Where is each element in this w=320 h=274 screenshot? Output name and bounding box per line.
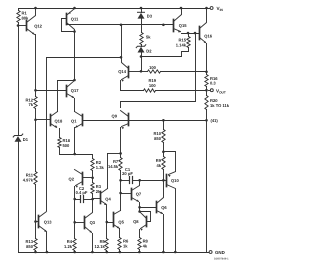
junction Q2 emitter / C2 left <box>73 198 76 201</box>
svg-text:4k: 4k <box>156 163 161 168</box>
junction node B (D2 anode / R15 return) <box>140 55 143 58</box>
junction divider node (4) <box>205 119 208 122</box>
transistor Q13 <box>36 212 53 253</box>
svg-text:5k: 5k <box>146 35 151 40</box>
transistor Q17 <box>36 81 80 112</box>
capacitor C1 20pF <box>121 167 140 184</box>
junction C1 / Q7 collector <box>138 179 141 182</box>
svg-text:Q17: Q17 <box>71 88 79 93</box>
junction Q15 collector / top rail <box>180 7 183 10</box>
resistor R15 <box>187 37 190 48</box>
wire Q18 collector riser <box>58 80 75 82</box>
transistor Q4 <box>93 189 112 239</box>
diode D1 <box>13 134 29 142</box>
wire Q3 base node down to R4 <box>74 223 76 239</box>
svg-text:Q18: Q18 <box>55 118 63 123</box>
junction Q7 emitter / Q6 base <box>138 206 141 209</box>
svg-text:Q14: Q14 <box>118 69 126 74</box>
junction R15 top <box>187 32 190 35</box>
resistor R7 <box>119 158 122 171</box>
svg-text:20 pF: 20 pF <box>122 171 133 176</box>
transistor Q18 <box>36 112 63 138</box>
junction Q11 emitter / top rail <box>73 7 76 10</box>
wire 5k to D2 <box>141 45 143 47</box>
junction tail node <box>73 153 76 156</box>
wire Q16 base to Q9 collector <box>121 34 196 108</box>
wire left rail upper segment <box>18 9 20 11</box>
svg-text:1k TO 11k: 1k TO 11k <box>210 103 230 108</box>
transistor Q16 <box>200 9 213 72</box>
junction Q3 emitter / rail <box>91 251 94 254</box>
junction Q16 collector / top rail <box>205 7 208 10</box>
svg-text:0.4 pF: 0.4 pF <box>76 190 88 195</box>
wire R15 top <box>188 34 190 37</box>
wire feedback line Q1 base to divider node <box>84 120 207 122</box>
wire R5 bottom <box>106 251 108 253</box>
svg-text:DS007846-1: DS007846-1 <box>214 258 229 261</box>
junction Q2 base / R2 / R3 <box>91 177 94 180</box>
wire R20 top stub <box>206 91 208 96</box>
junction Q3 base <box>73 221 76 224</box>
wire R9 bottom to Q10 base node <box>163 170 165 181</box>
junction Q13 base <box>34 220 37 223</box>
junction R1 bottom / Q12 base <box>17 24 20 27</box>
resistor R14 100 <box>148 70 161 73</box>
wire R7 bottom <box>120 171 122 181</box>
capacitor C2 0.4pF <box>75 186 93 203</box>
resistor R19 <box>144 89 156 92</box>
svg-text:D2: D2 <box>146 49 152 54</box>
junction Q17 base / Q12 emitter / R12 <box>34 89 37 92</box>
wire tail node to R2 <box>75 155 93 159</box>
resistor R4 <box>73 239 76 251</box>
wire R12 bottom <box>35 109 37 120</box>
wire R7 top <box>120 154 122 158</box>
wire node C to 100 ohm <box>142 71 148 73</box>
junction R16 top / Q16 emitter <box>205 71 208 74</box>
svg-text:Q2: Q2 <box>69 176 75 181</box>
transistor Q3 <box>75 200 96 253</box>
wire R9 top <box>163 152 165 157</box>
svg-text:Q10: Q10 <box>171 178 179 183</box>
wire Q2 emitter node down <box>74 200 76 223</box>
junction R7 / C1 / Q5 collector line <box>119 179 122 182</box>
transistor Q10 (PNP) <box>164 152 180 253</box>
wire PNP base rail to Q15 base <box>67 24 174 26</box>
wire R18 bottom to tail node <box>60 148 75 155</box>
svg-text:Q12: Q12 <box>34 24 42 29</box>
wire Q18 base node down <box>35 120 37 172</box>
resistor R1 <box>17 11 20 23</box>
wire R10 bottom to junction <box>163 143 165 152</box>
svg-text:1.14k: 1.14k <box>176 42 187 47</box>
svg-text:1.2k: 1.2k <box>64 244 73 249</box>
junction Q17 collector / Q11 <box>73 79 76 82</box>
wire drop from base rail to node A <box>121 25 123 58</box>
svg-text:2k: 2k <box>96 189 101 194</box>
resistor R18 <box>58 138 61 148</box>
junction Q9 emitter / Q4 collector <box>119 152 122 155</box>
junction base rail / reference string drop <box>162 24 165 27</box>
resistor R16 <box>205 75 208 87</box>
resistor R20 <box>205 96 208 110</box>
svg-text:7k: 7k <box>28 102 33 107</box>
transistor Q5 <box>107 211 125 238</box>
wire top V+ rail <box>19 8 210 10</box>
svg-text:Q7: Q7 <box>136 191 142 196</box>
svg-text:Q6: Q6 <box>161 205 167 210</box>
wire bottom ground rail <box>19 252 209 254</box>
svg-text:Q11: Q11 <box>71 16 79 21</box>
svg-text:500: 500 <box>63 143 71 148</box>
junction R10/R9/Q10 emitter <box>162 151 165 154</box>
wire R16 bottom stub <box>206 87 208 91</box>
svg-text:Q8: Q8 <box>133 219 139 224</box>
wire D3 to 5k <box>141 19 143 33</box>
svg-text:4k: 4k <box>143 243 148 248</box>
junction top rail / D3 <box>140 7 143 10</box>
wire R4 bottom <box>74 251 76 253</box>
junction Q7 base tap <box>119 192 122 195</box>
wire R10 top <box>163 121 165 130</box>
svg-text:100: 100 <box>149 65 157 70</box>
resistor R5 <box>105 239 108 251</box>
svg-text:100: 100 <box>149 83 157 88</box>
wire R6 bottom <box>119 250 121 253</box>
wire R13 bottom <box>35 251 37 253</box>
terminal GND <box>209 250 225 255</box>
transistor Q11 (diode-connected PNP) <box>62 9 80 81</box>
wire R20 bottom stub <box>206 110 208 121</box>
wire Q4 collector run <box>108 153 121 155</box>
transistor Q15 <box>174 9 188 33</box>
terminal VOUT <box>209 88 226 94</box>
transistor Q2 <box>69 170 93 200</box>
junction feedback / R10 <box>162 119 165 122</box>
resistor R9 <box>162 157 165 170</box>
junction node A <box>120 56 123 59</box>
wire divider node down to ground rail <box>206 121 208 253</box>
svg-text:850: 850 <box>26 244 34 249</box>
wire 100 ohm to R16 top <box>161 71 207 73</box>
svg-text:Q15: Q15 <box>179 23 187 28</box>
resistor R11 <box>34 172 37 185</box>
svg-text:Q5: Q5 <box>118 220 124 225</box>
svg-text:1.3k: 1.3k <box>96 165 105 170</box>
wire Q13 base node to R13 <box>35 222 37 239</box>
junction Q6 emitter / rail <box>162 251 165 254</box>
resistor R13 <box>34 239 37 251</box>
transistor Q8 (diode-connected) <box>133 212 150 238</box>
junction Q10 base / R9 / C1 line <box>162 179 165 182</box>
wire Q15 emitter to Q16 base <box>182 33 200 35</box>
transistor Q12 <box>19 9 43 91</box>
wire ground rail to GND terminal <box>207 252 209 254</box>
svg-text:Q1: Q1 <box>71 118 77 123</box>
svg-text:12.1k: 12.1k <box>95 244 106 249</box>
junction Q10 collector / rail <box>174 251 177 254</box>
resistor R3 <box>91 183 94 194</box>
diode D2 <box>136 45 152 54</box>
junction Q18 base node <box>34 119 37 122</box>
wire V+ to D3 <box>141 9 143 13</box>
svg-text:D3: D3 <box>147 14 153 19</box>
wire R2 bottom to Q2 base node <box>92 171 94 178</box>
transistor Q7 <box>121 181 142 208</box>
wire R3 top <box>92 178 94 183</box>
junction VOUT node <box>205 89 208 92</box>
svg-text:Q4: Q4 <box>105 197 111 202</box>
junction Q11 base-collector tie <box>73 30 76 33</box>
svg-text:D1: D1 <box>23 137 29 142</box>
junction Q12 collector / top rail <box>34 7 37 10</box>
wire R19 to VOUT node <box>156 90 207 92</box>
resistor R6 <box>118 238 121 250</box>
resistor R 5k <box>140 33 143 45</box>
transistor Q1 <box>71 112 82 155</box>
wire R3 bottom to C2 node <box>92 194 94 200</box>
svg-text:Q9: Q9 <box>112 114 118 119</box>
wire Q7 emitter node down <box>139 208 141 212</box>
junction C2 right / R3 / Q3 collector / Q4 base <box>91 198 94 201</box>
wire R5 bottom <box>106 251 108 253</box>
junction Q8 collector node <box>138 210 141 213</box>
wire down to Q5 collector <box>120 181 122 211</box>
junction base rail / drop to Q14 <box>120 24 123 27</box>
svg-text:850: 850 <box>154 136 162 141</box>
wire C1 node to Q10 base node <box>140 180 164 182</box>
junction Q5 base / Q4 emitter line <box>106 221 109 224</box>
svg-text:Q3: Q3 <box>90 220 96 225</box>
transistor Q9 <box>112 111 129 154</box>
wire R16 top stub <box>206 72 208 75</box>
svg-text:0.3: 0.3 <box>210 81 216 86</box>
svg-text:GND: GND <box>215 250 225 255</box>
resistor R10 <box>162 130 165 143</box>
wire D2 anode down <box>141 53 143 72</box>
svg-text:1k: 1k <box>123 243 128 248</box>
transistor Q14 <box>118 58 141 91</box>
junction Q16 base drop <box>194 32 197 35</box>
wire node A left and down to Q13 collector <box>47 57 122 59</box>
svg-text:14.5k: 14.5k <box>108 164 119 169</box>
wire Q14 emitter to R19 <box>121 90 144 92</box>
svg-text:Q13: Q13 <box>44 219 52 224</box>
svg-text:Q16: Q16 <box>204 33 212 38</box>
resistor R8 <box>138 238 141 250</box>
transistor Q6 <box>140 181 168 253</box>
resistor R12 <box>34 97 37 109</box>
wire Q17 base node to R12 <box>35 91 37 97</box>
terminal VIN <box>210 6 223 12</box>
wire R8 bottom <box>139 250 141 253</box>
svg-text:(41): (41) <box>211 118 219 123</box>
junction node C (Q14 base / 100 ohm) <box>140 70 143 73</box>
junction Q13 emitter / rail <box>46 251 49 254</box>
svg-text:80k: 80k <box>22 15 30 20</box>
diode D3 <box>138 12 153 18</box>
wire node B to R15 bottom <box>142 48 189 57</box>
svg-text:4.97k: 4.97k <box>23 177 34 182</box>
wire left rail lower segment <box>18 142 20 253</box>
resistor R2 <box>91 159 94 171</box>
